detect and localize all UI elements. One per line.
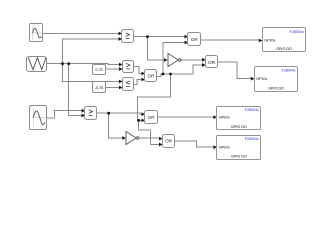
logical operator OR3 <box>145 111 158 124</box>
wire OR4 out to GPIO4 <box>175 141 214 147</box>
constant 0.75 <box>93 65 106 75</box>
arrow OR1 in1 <box>185 35 189 39</box>
arrow GPIO4 input <box>213 145 217 149</box>
wire constant -0.75 to LE1 in2 <box>105 87 120 89</box>
logical operator OR2 <box>206 56 218 68</box>
svg-text:OR: OR <box>165 139 173 144</box>
logical operator OR4 <box>163 135 175 148</box>
arrow GE3 in1 <box>82 109 86 113</box>
arrow ORm in2 <box>142 78 146 82</box>
wire constant 0.75 to GE2 in2 <box>106 68 120 70</box>
relational operator GE2 <box>123 61 134 73</box>
GPIO DO block 3 (F28004x) <box>217 107 261 130</box>
svg-text:GPIO DO: GPIO DO <box>231 125 247 129</box>
junction node ORm out 2 <box>169 73 172 76</box>
sine wave source Sine1 <box>30 24 43 42</box>
svg-text:OR: OR <box>148 74 156 79</box>
wire NOT2 out to OR4 in1 <box>139 137 160 139</box>
arrow GE1 in1 <box>119 32 123 36</box>
svg-text:OR: OR <box>148 115 156 120</box>
arrow NOT1 input <box>164 58 168 62</box>
arrow OR3 in2 <box>142 119 146 123</box>
arrow GPIO1 input <box>259 39 263 43</box>
svg-text:OR: OR <box>208 60 216 65</box>
junction node OR3 in2 branch <box>137 119 140 122</box>
wire triangle output main <box>47 64 120 65</box>
arrow OR2 in2 <box>202 63 206 67</box>
wire sine2 to GE3 in1 <box>47 111 83 118</box>
junction node ORm out 1 <box>162 73 165 76</box>
svg-text:GPIO DO: GPIO DO <box>268 86 284 90</box>
arrow GPIO3 input <box>213 115 217 119</box>
arrow OR3 in1 <box>142 112 146 116</box>
logical operator NOT2 <box>126 131 139 144</box>
wire ORm branch down to OR3 in2 <box>137 74 170 121</box>
arrow OR2 in1 <box>202 58 206 62</box>
arrow OR4 in2 <box>159 143 163 147</box>
junction node B on triangle net <box>67 62 70 65</box>
wire ORm output net <box>157 65 203 77</box>
arrow GE1 in2 <box>119 37 123 41</box>
svg-text:0.75: 0.75 <box>95 68 102 72</box>
wire GE1 branch down to NOT1 input <box>148 37 165 61</box>
logical operator NOT1 <box>168 53 181 66</box>
arrow NOT2 input <box>122 136 126 140</box>
svg-text:F28004x: F28004x <box>245 108 259 112</box>
wire OR1 out to GPIO1 <box>201 39 260 41</box>
wire GE1 out to OR1 in1 <box>134 36 185 38</box>
arrow ORm in1 <box>142 72 146 76</box>
logical operator ORm <box>145 70 157 82</box>
svg-text:OR: OR <box>191 37 199 42</box>
wire OR2 out to GPIO2 <box>218 62 252 79</box>
arrow GE2 in2 <box>119 67 123 71</box>
relational operator GE1 <box>122 30 134 43</box>
junction node on GE1 output net <box>146 35 149 38</box>
arrow LE1 in2 <box>119 86 123 90</box>
svg-text:GPIO DO: GPIO DO <box>231 154 247 158</box>
svg-text:GPIOx: GPIOx <box>219 145 230 149</box>
arrow GE3 in2 <box>82 114 86 118</box>
arrow OR4 in1 <box>159 137 163 141</box>
svg-text:F28004x: F28004x <box>290 30 304 34</box>
sine wave source Sine2 <box>30 106 47 130</box>
svg-text:GPIO DO: GPIO DO <box>276 47 292 51</box>
signal generator triangle wave <box>27 57 47 72</box>
wire OR3 out to GPIO3 <box>157 116 214 118</box>
wire NOT1 out to OR2 in1 <box>181 59 203 61</box>
wire GE3 out net <box>97 113 143 114</box>
junction node A on triangle net <box>61 62 64 65</box>
svg-text:GPIOx: GPIOx <box>256 77 267 81</box>
wire branch to OR4 in2 <box>139 121 160 145</box>
wire sine1 to GE1 in1 <box>43 33 120 35</box>
wire GE2 out to ORm in1 <box>134 67 142 74</box>
input arrowheads <box>82 32 263 149</box>
svg-text:GPIOx: GPIOx <box>219 115 230 119</box>
wire LE1 out to ORm in2 <box>134 80 142 85</box>
logical operator OR1 <box>188 33 201 46</box>
arrow LE1 in1 <box>119 80 123 84</box>
GPIO DO block 1 (F28004x) <box>263 28 306 52</box>
svg-text:GPIOx: GPIOx <box>264 39 275 43</box>
wire branch B down to GE3 in2 <box>69 64 83 116</box>
wire ORm branch up to OR1 in2 <box>163 43 185 75</box>
GPIO DO block 2 (F28004x) <box>255 67 298 92</box>
junction node GE3 output <box>107 112 110 115</box>
constant -0.75 <box>93 82 106 93</box>
svg-text:F28004x: F28004x <box>245 137 259 141</box>
arrow GE2 in1 <box>119 63 123 67</box>
GPIO DO block 4 (F28004x) <box>217 136 261 160</box>
relational operator LE1 <box>123 78 134 91</box>
arrow OR1 in2 <box>185 41 189 45</box>
wire GE3 branch down to NOT2 input <box>109 113 123 138</box>
svg-text:F28004x: F28004x <box>282 69 296 73</box>
arrow GPIO2 input <box>251 77 255 81</box>
wire branch A down to LE1 in1 <box>63 64 120 82</box>
wire branch A up to GE1 in2 <box>63 39 120 64</box>
svg-text:-0.75: -0.75 <box>95 86 103 90</box>
relational operator GE3 <box>85 107 97 120</box>
